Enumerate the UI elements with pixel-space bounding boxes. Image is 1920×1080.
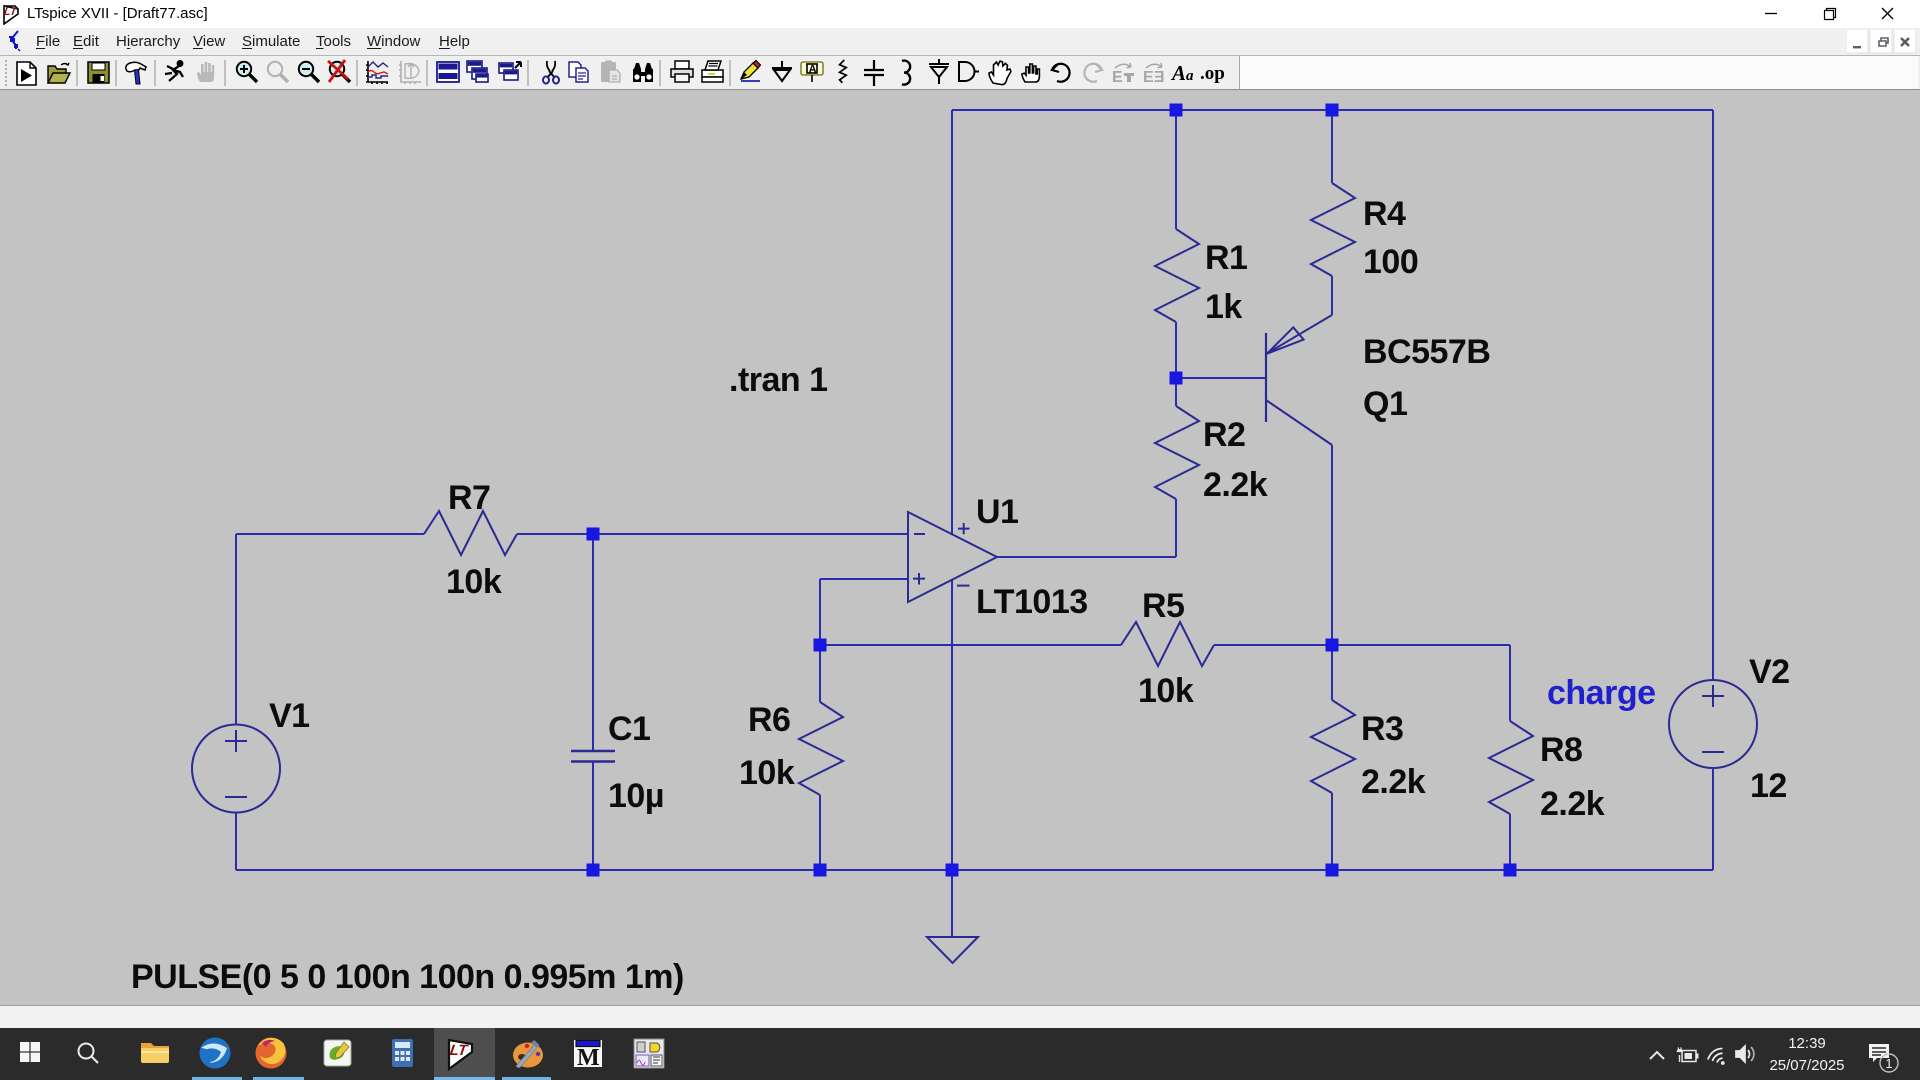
- svg-text:U1: U1: [976, 493, 1018, 531]
- toolbar icon: pause (grey hand): [197, 62, 214, 82]
- svg-text:12:39: 12:39: [1788, 1035, 1826, 1052]
- toolbar icon: cut: [543, 61, 559, 84]
- wire +input horizontal: [820, 578, 908, 580]
- wire base node: [1176, 377, 1266, 379]
- svg-text:R7: R7: [448, 479, 490, 517]
- resistor R3: [1311, 700, 1355, 793]
- menu bar: [0, 28, 1920, 56]
- resistor R8: [1489, 721, 1533, 814]
- wire C1 top lead: [592, 534, 594, 751]
- svg-text:10k: 10k: [446, 563, 502, 601]
- LTspice taskbar icon: [449, 1040, 472, 1069]
- wire node to R8: [1332, 644, 1510, 646]
- svg-text:10k: 10k: [1138, 672, 1194, 710]
- svg-text:M: M: [577, 1045, 600, 1071]
- svg-text:R5: R5: [1142, 587, 1184, 625]
- file explorer icon: [141, 1043, 169, 1063]
- title bar: [0, 0, 1920, 28]
- wire ground stem: [951, 870, 953, 937]
- wire R1 top lead: [1175, 110, 1177, 229]
- wire V1 top: [235, 534, 237, 724]
- svg-text:2.2k: 2.2k: [1361, 763, 1426, 801]
- toolbar icon: undo: [1052, 64, 1070, 82]
- svg-text:V1: V1: [269, 697, 310, 735]
- open app underlines: [192, 1077, 242, 1080]
- toolbar icon: paste (grey): [601, 61, 620, 83]
- svg-text:R4: R4: [1363, 195, 1406, 233]
- capacitor C1: [571, 751, 615, 762]
- wire R6 top lead: [819, 645, 821, 702]
- svg-text:2.2k: 2.2k: [1540, 785, 1605, 823]
- op-amp U1: [908, 512, 997, 602]
- wire R1 bottom lead: [1175, 322, 1177, 378]
- calculator icon: [392, 1039, 413, 1067]
- svg-text:Q1: Q1: [1363, 385, 1407, 423]
- toolbar icon: print: [671, 61, 693, 82]
- firefox icon: [256, 1038, 287, 1069]
- svg-text:PULSE(0 5 0 100n 100n 0.995m 1: PULSE(0 5 0 100n 100n 0.995m 1m): [131, 958, 684, 996]
- svg-text:1k: 1k: [1205, 288, 1242, 326]
- svg-text:LT1013: LT1013: [976, 583, 1088, 621]
- toolbar icon: diode: [929, 59, 949, 84]
- wire R8 bottom lead: [1509, 814, 1511, 870]
- wire bottom rail: [236, 869, 1713, 871]
- wire Q1 collector down: [1331, 445, 1333, 645]
- resistor R6: [799, 702, 843, 795]
- wire R2 top lead: [1175, 378, 1177, 406]
- toolbar icon: copy: [569, 62, 588, 82]
- wire R6 bottom lead: [819, 795, 821, 870]
- svg-text:2.2k: 2.2k: [1203, 466, 1268, 504]
- toolbar icon: inductor: [902, 61, 910, 85]
- paint icon: [513, 1040, 543, 1068]
- tray battery: [1677, 1047, 1698, 1062]
- wire V2 bottom: [1712, 768, 1714, 870]
- wire R3 top lead: [1331, 645, 1333, 700]
- tray chevron: [1650, 1052, 1664, 1059]
- wire R3 bottom lead: [1331, 793, 1333, 870]
- LTspice app icon: [2, 3, 24, 25]
- miktex icon: [573, 1039, 603, 1071]
- svg-text:V2: V2: [1749, 653, 1790, 691]
- svg-text:C1: C1: [608, 710, 650, 748]
- toolbar icon: move (hand): [989, 61, 1011, 85]
- resistor R4: [1311, 183, 1355, 276]
- toolbar icon: tile windows: [437, 62, 459, 82]
- toolbar icon: control panel (hammer): [126, 62, 146, 84]
- svg-text:R1: R1: [1205, 239, 1247, 277]
- wire C1 bottom lead: [592, 762, 594, 871]
- toolbar icon: label net: [801, 62, 823, 82]
- toolbar icon: capacitor: [864, 60, 884, 86]
- voltage source V1: [192, 725, 280, 813]
- resistor R7: [424, 511, 517, 555]
- schematic doc icon: [6, 30, 24, 52]
- wire +input vertical: [819, 579, 821, 645]
- svg-text:12: 12: [1750, 767, 1787, 805]
- resistor R5: [1121, 622, 1214, 666]
- toolbar icon: zoom out: [299, 62, 319, 82]
- transistor Q1: [1266, 315, 1332, 445]
- svg-text:10µ: 10µ: [608, 777, 664, 815]
- active app highlight: [434, 1028, 495, 1080]
- wire R8 top lead: [1509, 645, 1511, 721]
- tray speaker: [1736, 1046, 1754, 1062]
- svg-text:R8: R8: [1540, 731, 1582, 769]
- wire V1 bottom: [235, 813, 237, 870]
- svg-text:.tran 1: .tran 1: [729, 361, 828, 399]
- toolbar icon: ground: [772, 61, 792, 81]
- toolbar icon: zoom full extents: [328, 60, 350, 82]
- resistor R2: [1155, 406, 1199, 499]
- toolbar icon: cascade + arrow: [499, 62, 521, 80]
- svg-text:BC557B: BC557B: [1363, 333, 1490, 371]
- toolbar icon: zoom in: [237, 62, 257, 82]
- svg-text:10k: 10k: [739, 754, 795, 792]
- toolbar icon: mirror (grey): [1112, 63, 1134, 86]
- toolbar gripper: [5, 60, 7, 86]
- wire V+ rail down to op-amp top: [951, 110, 953, 534]
- toolbar bottom edge: [0, 89, 1920, 91]
- ground: [927, 937, 978, 963]
- toolbar icon: resistor: [840, 60, 847, 83]
- toolbar: [0, 56, 1920, 90]
- window controls: [1740, 0, 1920, 28]
- wire V1 to R7: [236, 533, 424, 535]
- toolbar icon: mirror2 (grey): [1143, 63, 1165, 86]
- toolbar icon: cascade windows: [467, 61, 488, 82]
- toolbar icon: wire (pencil): [741, 61, 761, 82]
- toolbar icon: waveform: [366, 61, 388, 84]
- toolbar icon: waveform (grey): [399, 61, 421, 84]
- wire R7 to op-amp: [517, 533, 908, 535]
- voltage source V2: [1669, 680, 1757, 768]
- svg-text:charge: charge: [1547, 674, 1656, 712]
- wire R4 top lead: [1331, 110, 1333, 183]
- wire op-amp V- down to bottom rail: [951, 580, 953, 870]
- svg-text:25/07/2025: 25/07/2025: [1769, 1057, 1844, 1074]
- klayout icon: [634, 1039, 664, 1068]
- toolbar icon: zoom (grey): [268, 62, 288, 82]
- svg-text:R2: R2: [1203, 416, 1245, 454]
- toolbar icon: spice directive: [1200, 63, 1225, 84]
- MDI child window buttons: [1846, 29, 1920, 54]
- wire R5 right lead: [1214, 644, 1332, 646]
- wire op-amp output: [997, 556, 1176, 558]
- svg-text:R3: R3: [1361, 710, 1403, 748]
- toolbar icon: drag (hand): [1022, 64, 1039, 82]
- toolbar icon: save: [88, 62, 109, 83]
- toolbar icon: text: [1170, 61, 1194, 85]
- svg-text:100: 100: [1363, 243, 1418, 281]
- svg-text:R6: R6: [748, 701, 790, 739]
- wire R2 bottom lead: [1175, 499, 1177, 557]
- resistor R1: [1155, 229, 1199, 322]
- toolbar icon: find: [633, 63, 653, 82]
- thunderbird icon: [200, 1038, 231, 1069]
- wire top rail: [952, 109, 1713, 111]
- toolbar icon: print setup: [702, 61, 723, 82]
- search icon: [79, 1044, 99, 1064]
- toolbar icon: new schematic: [17, 62, 36, 85]
- wire V2 top: [1712, 110, 1714, 680]
- wire R4 bottom lead: [1331, 276, 1333, 315]
- taskbar: [0, 1028, 1920, 1080]
- start button: [20, 1042, 40, 1062]
- toolbar icon: redo (grey): [1084, 64, 1102, 82]
- toolbar icon: run: [165, 61, 183, 81]
- wire feedback node: [820, 644, 1121, 646]
- toolbar icon: component (gate): [959, 62, 979, 81]
- status bar: [0, 1005, 1920, 1029]
- tray wifi: [1708, 1048, 1725, 1064]
- toolbar icon: open: [48, 63, 70, 83]
- svg-text:1: 1: [1885, 1056, 1892, 1071]
- notification icon: [1869, 1044, 1898, 1072]
- notepad++ icon: [324, 1040, 351, 1066]
